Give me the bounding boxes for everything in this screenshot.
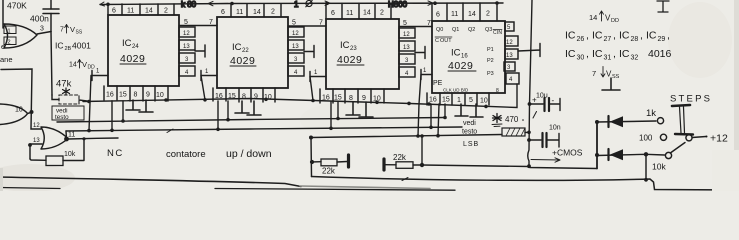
svg-text:16: 16	[106, 92, 114, 99]
svg-text:ane: ane	[0, 55, 13, 64]
IC24 pin numbers bottom 16 15 8 9 10	[106, 92, 164, 100]
svg-text:IC: IC	[122, 38, 132, 49]
resistor R 22k left	[311, 161, 321, 163]
svg-text:,: ,	[586, 48, 589, 60]
svg-text:2: 2	[164, 8, 168, 15]
IC2B 4001 label	[55, 41, 91, 53]
ground under IC16 pin5	[470, 104, 483, 117]
svg-text:27: 27	[604, 36, 612, 43]
svg-text:10: 10	[480, 98, 488, 105]
ground under IC22 pin8	[235, 101, 249, 113]
IC list 4016 labels	[565, 30, 670, 44]
capacitor 400n	[43, 9, 59, 14]
wire gate D input 13	[30, 144, 42, 159]
svg-text:7: 7	[209, 19, 213, 26]
svg-text:Q0: Q0	[436, 27, 443, 33]
svg-text:8: 8	[134, 92, 138, 99]
wire bus L3 (Vdd net)	[66, 127, 462, 131]
svg-text:5: 5	[292, 20, 296, 27]
svg-text:IC: IC	[232, 42, 242, 53]
svg-text:2: 2	[271, 9, 275, 16]
svg-text:14: 14	[468, 11, 476, 18]
node +12	[706, 136, 708, 138]
wire pin16 column IC24	[111, 101, 113, 131]
svg-text:10: 10	[156, 92, 164, 99]
svg-text:14: 14	[589, 13, 597, 22]
svg-text:14: 14	[363, 10, 371, 17]
svg-text:1: 1	[8, 29, 11, 35]
svg-text:OUT: OUT	[440, 38, 452, 44]
wire bottom left long line B0	[0, 177, 301, 187]
power Vdd label 4016 group	[589, 13, 619, 24]
wire bus L1 (PE / up-down net)	[83, 84, 517, 108]
wire V1 main vertical right	[528, 0, 597, 169]
svg-text:1k: 1k	[646, 108, 656, 119]
svg-text:LSB: LSB	[463, 141, 479, 148]
wire carry 5-7 IC24 to IC22	[179, 19, 217, 26]
ground under IC16 pin1	[455, 104, 468, 116]
NOR gate IC2C middle left	[0, 104, 28, 125]
svg-text:6: 6	[112, 8, 116, 15]
wire diode block left vertical	[596, 122, 598, 169]
svg-text:400n: 400n	[30, 14, 49, 24]
IC23 pin numbers top	[331, 10, 384, 18]
NOR gate IC2D bottom left	[41, 127, 68, 149]
svg-text:15: 15	[442, 97, 450, 104]
svg-text:15: 15	[119, 92, 127, 99]
wire carry 5-7 IC23 to IC16	[399, 20, 432, 27]
svg-text:47k: 47k	[56, 79, 72, 90]
wire pin16 column IC23	[330, 102, 332, 128]
junction tick on B1	[402, 178, 408, 181]
svg-text:12: 12	[292, 31, 299, 37]
svg-text:1: 1	[457, 97, 461, 104]
wire gate D output / NC stub	[64, 137, 69, 142]
svg-text:DD: DD	[88, 65, 96, 71]
capacitor stub top right	[657, 1, 669, 12]
svg-text:vedi: vedi	[463, 120, 476, 127]
ground under IC23 pin8	[346, 102, 360, 115]
svg-text:12: 12	[183, 31, 190, 37]
IC U-IC16 4029 counter box	[427, 3, 505, 105]
svg-text:10: 10	[15, 107, 23, 114]
svg-text:11: 11	[346, 10, 353, 17]
svg-text:13: 13	[183, 44, 190, 50]
wire bottom edge line segments	[0, 188, 455, 191]
svg-text:7: 7	[319, 20, 323, 27]
svg-text:10μ: 10μ	[536, 93, 548, 100]
wire x646 vertical to bottom bus	[645, 154, 647, 180]
svg-text:28: 28	[631, 36, 639, 43]
svg-text:100: 100	[639, 134, 653, 143]
svg-text:IC: IC	[565, 48, 576, 60]
svg-text:k 80: k 80	[181, 0, 197, 9]
svg-text:IC: IC	[619, 48, 630, 60]
svg-text:Q3: Q3	[485, 27, 492, 33]
wire pin15 column IC22	[227, 101, 229, 120]
svg-text:Q2: Q2	[468, 27, 475, 33]
svg-text:6: 6	[436, 12, 440, 19]
IC22 jam input stubs	[288, 27, 314, 76]
svg-text:DD: DD	[611, 18, 619, 24]
wire corner net to gate D input	[1, 69, 41, 129]
svg-text:13: 13	[33, 138, 40, 144]
svg-text:30: 30	[577, 55, 585, 62]
svg-text:V: V	[82, 60, 87, 69]
svg-text:IC: IC	[592, 48, 603, 60]
svg-text:9: 9	[362, 95, 366, 102]
svg-text:Q1: Q1	[452, 27, 459, 33]
wire gate A output to cap node	[37, 32, 51, 35]
svg-text:STEPS: STEPS	[670, 94, 712, 105]
svg-text:IC: IC	[340, 40, 350, 51]
svg-text:4001: 4001	[72, 41, 91, 51]
svg-text:7: 7	[60, 27, 64, 34]
svg-text:IC: IC	[619, 30, 630, 42]
svg-text:9: 9	[254, 94, 258, 101]
wire 22k output to V1	[422, 165, 529, 167]
ground under IC22 pin9	[247, 101, 261, 115]
svg-text:22k: 22k	[393, 153, 407, 162]
svg-text:contatore: contatore	[166, 149, 206, 160]
IC24 pin 1 PE stub	[92, 69, 108, 81]
power Vss label 4001	[60, 25, 83, 36]
diode D2	[597, 154, 665, 155]
svg-text:C: C	[435, 38, 439, 44]
wire gate C output to junction	[28, 112, 32, 113]
wire PE column IC16	[418, 75, 421, 137]
svg-text:4029: 4029	[120, 53, 145, 65]
svg-text:14: 14	[145, 8, 153, 15]
svg-text:10n: 10n	[549, 125, 561, 132]
ground under IC24 pin8	[126, 100, 140, 110]
svg-text:-: -	[552, 96, 555, 105]
svg-text:29: 29	[658, 36, 666, 43]
svg-text:+CMOS: +CMOS	[552, 148, 583, 158]
wire bottom frame left vertical	[310, 138, 313, 177]
resistor 10k feedback	[46, 156, 63, 166]
wire pin1 column IC16 to L5	[438, 104, 439, 136]
svg-text:2: 2	[380, 10, 384, 17]
svg-text:12: 12	[33, 123, 40, 129]
IC22 label	[230, 42, 255, 67]
IC22 pin 1 PE stub	[201, 69, 217, 81]
resistor 470 hatched box	[502, 128, 525, 136]
svg-text:470: 470	[505, 115, 519, 124]
svg-text:15: 15	[334, 95, 342, 102]
wire pin15 column IC23	[337, 102, 339, 119]
IC23 jam input stubs	[399, 28, 425, 77]
svg-text:4029: 4029	[337, 54, 362, 66]
wire PE column IC23	[310, 77, 313, 101]
svg-text:8: 8	[242, 94, 246, 101]
svg-text:2: 2	[8, 40, 11, 46]
wire top output bus	[100, 3, 503, 5]
svg-text:P3: P3	[487, 71, 494, 77]
svg-text:8: 8	[496, 88, 499, 94]
wire pin15 column IC24	[122, 101, 124, 121]
svg-text:9: 9	[146, 92, 150, 99]
svg-text:IC: IC	[592, 30, 603, 42]
wire PE column IC22	[201, 76, 205, 100]
svg-text:,: ,	[613, 48, 616, 60]
svg-text:24: 24	[132, 44, 139, 50]
svg-text:32: 32	[631, 55, 639, 62]
svg-text:22: 22	[242, 48, 249, 54]
capacitor 10u electrolytic	[530, 103, 544, 105]
power Vdd label 4001	[69, 60, 95, 71]
IC16 pin 1 PE stub	[421, 68, 432, 80]
svg-text:13: 13	[506, 53, 513, 59]
svg-text:IC: IC	[451, 48, 461, 59]
resistor 10k terminal	[665, 152, 671, 158]
note vedi testo boxed	[52, 106, 84, 120]
pen tick near cap	[533, 112, 537, 119]
IC16 internal labels	[433, 27, 502, 94]
svg-text:CLK UD B/D: CLK UD B/D	[443, 88, 469, 93]
switch common terminal	[686, 135, 692, 141]
node k80 label with left arrow	[181, 0, 228, 9]
svg-text:7: 7	[592, 69, 596, 78]
node H800 label with right arrow	[388, 0, 433, 9]
svg-text:10k: 10k	[64, 151, 76, 158]
svg-text:SS: SS	[76, 30, 83, 36]
svg-text:3: 3	[40, 26, 44, 33]
svg-text:23: 23	[350, 46, 357, 52]
IC23 pin 1 PE stub	[310, 70, 326, 82]
IC16 pin numbers top	[436, 11, 490, 19]
wire bus L2 (clock net)	[57, 118, 445, 123]
IC22 pin numbers top	[221, 9, 275, 17]
ground Vss 4016	[602, 78, 620, 90]
IC16 pin numbers bottom	[429, 97, 488, 105]
scan artifacts	[0, 0, 739, 191]
svg-text:PE: PE	[433, 80, 443, 87]
svg-text:4016: 4016	[648, 48, 672, 60]
svg-text:22k: 22k	[322, 167, 336, 176]
wire bottom bus B1	[312, 177, 739, 191]
resistor R 22k right	[382, 159, 385, 170]
svg-text:11: 11	[127, 8, 134, 15]
svg-text:7: 7	[427, 20, 431, 27]
svg-text:,: ,	[613, 30, 616, 42]
svg-text:2: 2	[486, 11, 490, 18]
svg-text:5: 5	[184, 19, 188, 26]
svg-text:6: 6	[331, 10, 335, 17]
svg-text:26: 26	[577, 36, 585, 43]
IC U-IC23 4029 counter box	[320, 3, 399, 103]
svg-text:11: 11	[236, 9, 243, 16]
IC U-IC22 4029 counter box	[213, 4, 288, 102]
svg-text:12: 12	[403, 32, 410, 38]
ground under IC23 pin9	[359, 102, 373, 117]
svg-text:13: 13	[292, 44, 299, 50]
svg-text:14: 14	[253, 9, 261, 16]
svg-text:12: 12	[506, 40, 513, 46]
svg-text:16: 16	[461, 54, 468, 60]
svg-text:P2: P2	[487, 58, 494, 64]
resistor 470 asterisk label	[493, 114, 502, 123]
svg-text:10k: 10k	[652, 162, 666, 172]
IC24 pin numbers top 6 11 14 2	[112, 8, 168, 15]
wire x423 from L5 to 22k resistor	[421, 136, 423, 165]
svg-text:,: ,	[640, 30, 643, 42]
resistor 1k terminal	[657, 118, 663, 124]
wire carry 5-7 IC22 to IC23	[288, 20, 326, 27]
svg-text:31: 31	[604, 55, 612, 62]
svg-text:,: ,	[667, 30, 670, 42]
wire left border stub	[2, 0, 4, 28]
svg-text:5: 5	[403, 20, 407, 27]
svg-text:4029: 4029	[448, 60, 473, 72]
IC16 right side stubs 5 12 13 3 4	[504, 22, 540, 84]
svg-text:P1: P1	[487, 47, 494, 53]
svg-text:+12: +12	[710, 133, 728, 145]
wire pin16 column IC16	[430, 104, 432, 127]
svg-text:2B: 2B	[65, 46, 72, 52]
NOR gate IC2A top	[4, 24, 37, 48]
svg-text:,: ,	[586, 30, 589, 42]
wire 47k feed down	[51, 32, 52, 96]
diode D1	[597, 121, 656, 122]
wire pin16 column IC22	[217, 101, 219, 129]
IC24 jam input stubs 12 13 3 4	[179, 27, 205, 76]
svg-text:IN: IN	[497, 30, 502, 36]
wire bus L5 (LSB net)	[311, 135, 502, 138]
capacitor 10n	[529, 139, 541, 141]
ground under IC24 pin9	[139, 100, 153, 112]
svg-text:testo: testo	[55, 114, 69, 121]
svg-text:e: e	[1, 42, 5, 51]
IC23 pin numbers bottom	[322, 95, 381, 103]
node 1-phi label with right arrow	[294, 0, 330, 9]
junction tick on L3	[167, 129, 173, 133]
svg-text:6: 6	[221, 9, 225, 16]
svg-text:IC: IC	[646, 30, 657, 42]
IC22 pin numbers bottom	[215, 93, 272, 101]
IC23 label	[337, 40, 362, 66]
wire pin15 column IC16	[444, 104, 446, 118]
svg-text:1: 1	[294, 0, 299, 9]
svg-text:up / down: up / down	[226, 148, 272, 160]
svg-text:4029: 4029	[230, 55, 255, 67]
svg-text:14: 14	[69, 62, 77, 69]
svg-text:SS: SS	[612, 74, 620, 80]
svg-text:IC: IC	[565, 30, 576, 42]
svg-text:V: V	[70, 25, 75, 34]
svg-text:testo: testo	[462, 129, 477, 136]
svg-text:NC: NC	[107, 148, 124, 159]
svg-text:IC: IC	[55, 41, 64, 51]
wire PE column IC24	[89, 76, 91, 131]
svg-text:13: 13	[403, 45, 410, 51]
IC16 label	[448, 48, 473, 73]
svg-text:5: 5	[469, 97, 473, 104]
power Vss label 4016 group	[592, 69, 620, 80]
IC U-IC24 4029 counter box	[104, 4, 179, 101]
svg-text:11: 11	[68, 132, 75, 139]
IC24 label	[120, 38, 145, 65]
svg-text:16: 16	[429, 97, 437, 104]
svg-text:470K: 470K	[7, 1, 27, 11]
svg-text:11: 11	[451, 11, 458, 18]
